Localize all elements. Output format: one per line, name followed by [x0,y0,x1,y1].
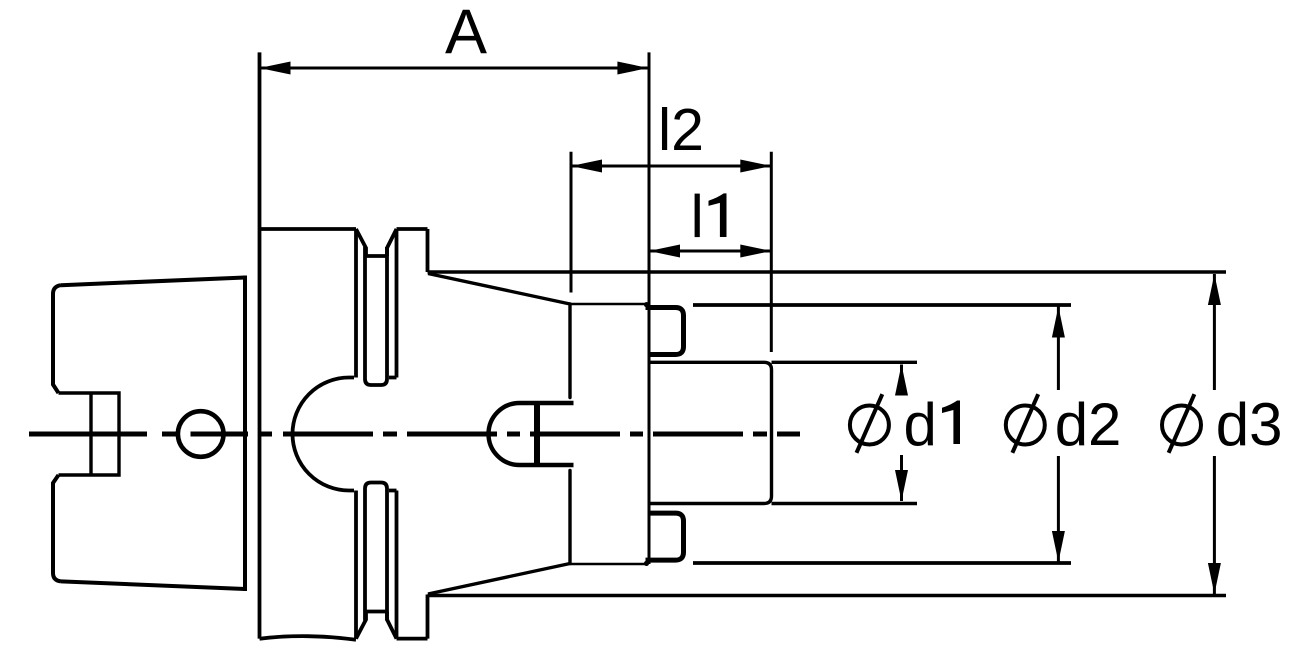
svg-text:A: A [445,0,487,67]
svg-text:d2: d2 [1055,391,1122,458]
svg-text:l2: l2 [658,97,704,163]
svg-text:d3: d3 [1216,391,1283,458]
svg-text:d: d [904,391,937,458]
